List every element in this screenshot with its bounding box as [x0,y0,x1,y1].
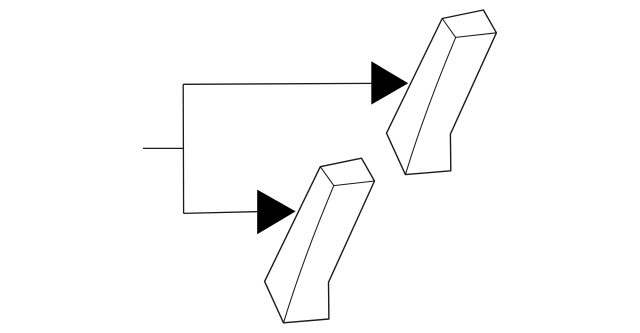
arrowhead top [371,61,408,104]
wire vertical branch [182,84,184,213]
wire stub left [143,147,183,149]
wire top branch [183,82,371,85]
wire bottom branch [184,212,258,214]
part upper molding [387,10,497,175]
part lower molding [265,158,375,323]
arrowhead bottom [257,190,295,235]
